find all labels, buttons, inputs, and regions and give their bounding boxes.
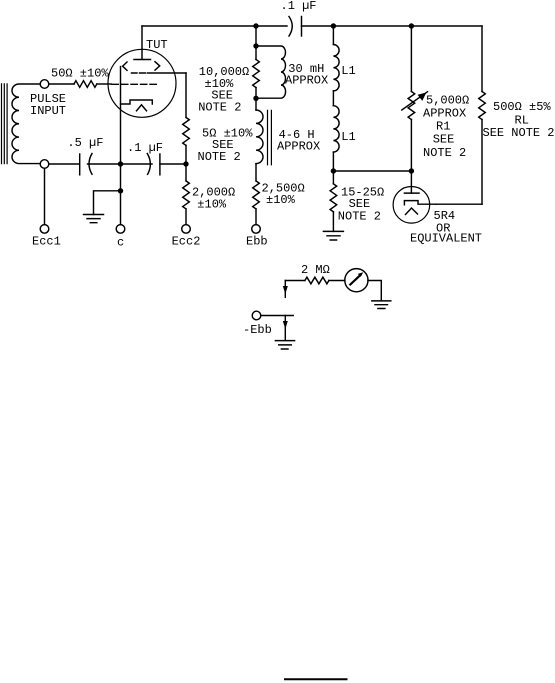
tube 5R4 envelope circle [393,187,430,224]
transformer T2 core lines [268,110,272,164]
svg-text:±10%: ±10% [266,193,296,207]
svg-text:APPROX: APPROX [285,74,328,88]
node terminal circle bottom of transformer [40,160,49,169]
wire node to tube 5R4 plate [410,171,412,193]
wire top rail right segment [302,25,483,27]
wire R 2Mohm to meter [329,280,345,282]
svg-text:NOTE 2: NOTE 2 [423,146,466,160]
svg-text:50Ω ±10%: 50Ω ±10% [51,67,109,81]
wire bottom terminal to C .5uF [49,163,79,165]
node terminal Ebb [252,225,261,234]
resistor R 5ohm [183,117,190,145]
svg-text:5,000Ω: 5,000Ω [426,94,469,108]
resistor R 2000ohm [183,181,190,209]
node junction dot ground tap [118,188,123,193]
arrow of variable resistor R1 [402,92,428,110]
tube TUT control grid dashes [112,83,156,85]
wire meter branch top [285,280,305,282]
tube 5R4 plate [404,192,419,194]
node junction dot 30mH bottom [253,96,258,101]
inductor L1 upper [333,44,339,90]
svg-text:APPROX: APPROX [277,140,320,154]
meter M1 circle [345,269,368,292]
wire R 15-25ohm to ground [332,212,334,232]
node junction dot Ecc2 top [183,161,188,166]
wire R 10000ohm to node [255,88,257,99]
wire screen grid node down to R 5ohm [185,73,187,117]
wire coil to R 2500ohm [255,164,257,181]
node junction dot 30mH top [253,43,258,48]
tube TUT envelope circle [108,49,176,117]
inductor L 30mH loop [256,46,286,98]
svg-text:EQUIVALENT: EQUIVALENT [410,232,482,246]
svg-text:SEE: SEE [433,133,455,147]
wire R 50ohm to TUT grid [97,83,111,85]
svg-text:±10%: ±10% [197,198,227,212]
inductor T2 4-6H primary coil [256,110,263,164]
wire R 2000ohm to Ecc2 terminal [185,209,187,225]
resistor R 2Mohm [305,277,329,284]
wire RL down to 5R4 cathode wire [481,120,483,205]
wire node down to 4-6H coil [255,98,257,110]
resistor R 15-25ohm [330,184,337,212]
wire R 5ohm to node [185,145,187,164]
wire TUT cathode/beam lead down [120,67,122,165]
wire node c to C .1uF [121,163,153,165]
svg-text:.1 µF: .1 µF [127,141,163,155]
wire ground tap to ground [94,191,121,215]
capacitor C .5uF : straight plate [79,154,81,175]
node terminal -Ebb [252,311,261,320]
wire -Ebb ground drop [284,316,286,341]
inductor L1 lower [333,106,339,152]
svg-text:NOTE 2: NOTE 2 [198,150,241,164]
tube TUT beam plate right [155,62,160,70]
wire C .5uF to node c [88,163,121,165]
svg-text:SEE NOTE 2: SEE NOTE 2 [483,126,555,140]
svg-text:L1: L1 [341,130,355,144]
svg-text:.1 µF: .1 µF [281,0,317,13]
ground symbol under -Ebb [275,341,294,349]
node terminal Ecc1 [40,225,49,234]
arrowhead down on meter branch [283,286,288,294]
svg-text:L1: L1 [341,64,355,78]
capacitor C .5uF : curved plate [89,154,92,175]
wire R 2500ohm to Ebb terminal [255,209,257,225]
svg-text:APPROX: APPROX [423,107,466,121]
inductor T1 secondary coil [12,84,40,164]
svg-text:Ebb: Ebb [246,235,268,249]
capacitor C .1uF top : curved plate [289,17,292,37]
node terminal c [116,225,125,234]
wire TUT plate lead from rail [141,26,143,49]
node junction dot R1 bottom [409,168,414,173]
svg-text:2 MΩ: 2 MΩ [301,263,330,277]
wire 5R4 cathode to RL [436,203,482,205]
wire meter branch left drop [284,281,286,298]
wire L1 to 15-25 node [332,152,334,171]
wire -Ebb to ground tap [261,315,293,317]
node junction dot L1 bottom [331,168,336,173]
capacitor C .1uF top : straight plate [301,17,303,37]
capacitor C .1uF mid : curved plate [147,154,150,175]
tube TUT cathode [121,100,153,104]
wire node to R 2000ohm [185,164,187,181]
svg-text:NOTE 2: NOTE 2 [338,210,381,224]
wire node down to c terminal [120,164,122,225]
wire node down to R 15-25ohm [332,171,334,184]
svg-text:TUT: TUT [146,38,168,52]
wire meter to ground [368,281,381,301]
svg-text:NOTE 2: NOTE 2 [198,101,241,115]
wire screen grid lead out of TUT [148,72,187,74]
svg-text:-Ebb: -Ebb [243,323,272,337]
svg-text:Ecc1: Ecc1 [32,235,61,249]
resistor RL 500ohm [479,92,486,120]
node junction dot at top rail x411 [409,23,414,28]
resistor R 50ohm [74,81,97,88]
resistor R1 5000ohm variable [408,92,415,120]
ground symbol under 15-25ohm [323,231,343,240]
meter M1 needle [350,275,360,285]
wire top rail left segment [142,25,287,27]
wire rail node down to L1 upper [332,26,334,45]
tube TUT heater [137,105,147,111]
wire node to R1 node [333,170,411,172]
node junction dot at top rail x333 [331,23,336,28]
svg-text:.5 µF: .5 µF [67,136,103,150]
resistor R 10000ohm [253,60,260,88]
ground symbol left [84,215,104,223]
wire rail node down to R 10000ohm [255,26,257,60]
tube 5R4 cathode [404,201,435,205]
svg-text:INPUT: INPUT [30,104,66,118]
ground symbol under meter [372,301,391,309]
node terminal circle top of transformer [40,80,49,89]
transformer T1 core lines [2,84,8,164]
resistor R 2500ohm [253,181,260,209]
wire terminal down to Ecc1 [44,168,46,224]
node terminal Ecc2 [182,225,191,234]
bottom page line [285,678,347,680]
arrowhead down on -Ebb drop [283,321,288,329]
tube TUT beam plate left [123,62,127,70]
wire rail corner down to RL [481,26,483,92]
svg-text:500Ω ±5%: 500Ω ±5% [493,100,551,114]
svg-text:c: c [117,236,124,250]
tube 5R4 heater [406,208,418,215]
wire between L1 coils [332,91,334,106]
svg-text:Ecc2: Ecc2 [172,235,201,249]
node junction dot cathode/cap [118,161,123,166]
wire C .1uF to Ecc2 node [160,163,186,165]
wire rail node down to R1 [410,26,412,92]
tube TUT screen grid dashes [132,72,146,74]
node junction dot at top rail x256 [253,23,258,28]
wire R1 to node [410,120,412,172]
tube TUT plate [134,49,151,59]
wire from terminal to R 50ohm [49,83,74,85]
capacitor C .1uF mid : straight plate [159,154,161,175]
svg-text:R1: R1 [436,120,450,134]
